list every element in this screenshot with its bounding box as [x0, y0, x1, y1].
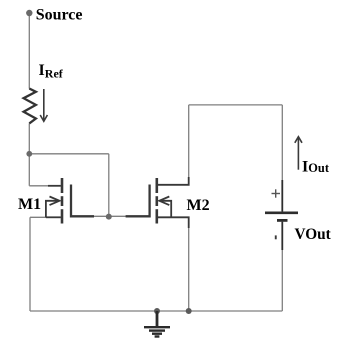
minus mark [275, 235, 277, 239]
wire node A to gate column [29, 153, 109, 155]
node A dot [26, 151, 32, 157]
wire gate column down to gate junction [108, 154, 110, 217]
channel bar segments [61, 178, 64, 193]
wire down to battery plus [281, 105, 283, 212]
svg-text:VOut: VOut [295, 226, 332, 243]
wire M1 source down to ground rail [29, 217, 31, 311]
wire battery minus down to rail [281, 222, 283, 312]
channel bar segments [156, 178, 159, 193]
drain lead dark part [48, 185, 61, 187]
svg-text:Source: Source [36, 6, 83, 23]
wire M1 drain horizontal [29, 185, 61, 187]
IRef current arrow [40, 89, 47, 121]
svg-text:Ref: Ref [45, 66, 64, 80]
source lead dark part [46, 216, 61, 218]
wire M2 source down to rail [188, 217, 190, 311]
battery short plate [277, 219, 288, 222]
ground junction dot [154, 308, 160, 314]
svg-text:M1: M1 [18, 196, 41, 213]
plus sign [272, 189, 281, 197]
wire M2 drain up [188, 105, 190, 185]
ground rail [30, 310, 282, 312]
ground symbol [144, 311, 170, 337]
svg-text:Out: Out [308, 161, 330, 175]
resistor R (IRef) [24, 89, 36, 124]
node Source dot [26, 10, 32, 16]
gate bar + gate lead [126, 185, 150, 217]
bulk arrow (tail, shaft, open head) [160, 201, 171, 218]
wire resistor bottom to node A [28, 123, 30, 185]
wire from Source node down to resistor [28, 13, 30, 89]
battery top lead dark [281, 180, 283, 211]
wire top loop horizontal [189, 104, 283, 106]
bulk arrow (tail, shaft, open head) [46, 201, 59, 218]
gate bar + gate lead [71, 185, 94, 217]
battery bottom lead dark [281, 222, 283, 250]
battery long plate [265, 212, 298, 215]
battery VOut [265, 180, 298, 250]
wire gate rail M1 to M2 [71, 215, 150, 217]
wire M1 source horizontal [30, 216, 62, 218]
transistor M1 [46, 178, 94, 224]
IOut arrow [295, 137, 302, 170]
gate junction dot [106, 214, 112, 220]
svg-text:I: I [302, 159, 308, 176]
svg-text:I: I [39, 62, 45, 79]
transistor M2 [126, 177, 189, 228]
svg-text:M2: M2 [187, 197, 210, 214]
source lead dark part [158, 217, 189, 228]
M2 source rail junction dot [186, 308, 192, 314]
drain lead dark part [158, 177, 189, 185]
